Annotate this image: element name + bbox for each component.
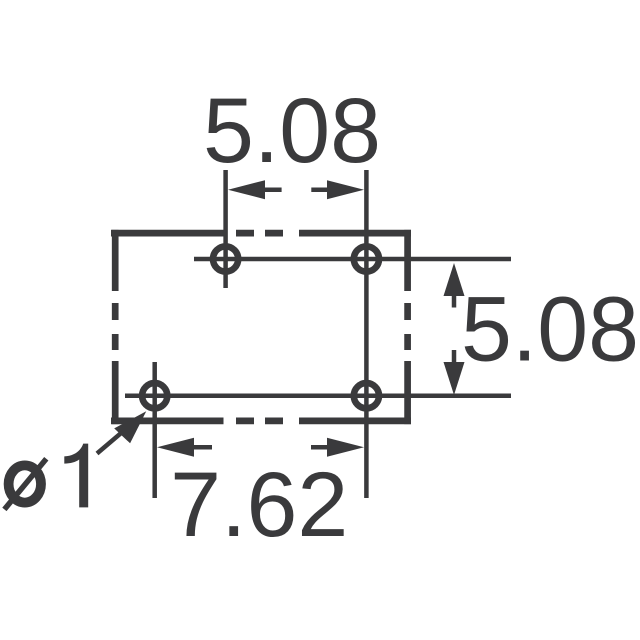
dimension 5.08 right: up arrow tail	[452, 294, 457, 308]
leader line for hole diameter ø1	[97, 426, 130, 454]
dimension 7.62 bottom: left arrowhead	[157, 438, 194, 457]
dimension 7.62 bottom: right arrow tail	[311, 445, 329, 450]
leader arrowhead for ø1	[114, 411, 146, 443]
component outline bottom edge (phantom line)	[111, 418, 411, 425]
dimension 5.08 top: left arrowhead	[228, 180, 265, 199]
extension line / centerline top-left hole (vertical)	[223, 170, 228, 288]
component outline right edge (phantom line)	[404, 230, 411, 424]
digit 1 of ø1 (custom glyph)	[64, 444, 88, 508]
extension line / centerline bottom-left hole (vertical)	[152, 362, 157, 498]
svg-text:5.08: 5.08	[461, 278, 639, 380]
dimension 5.08 top: right arrow tail	[311, 187, 329, 192]
slash of diameter symbol	[4, 459, 46, 510]
centerline through bottom holes (horizontal)	[125, 393, 511, 398]
dimension 5.08 right: up arrowhead	[444, 263, 465, 296]
hole top-left	[213, 246, 238, 271]
dimension 5.08 top: right arrowhead	[327, 180, 364, 199]
hole top-right	[354, 246, 379, 271]
dimension 5.08 right: down arrowhead	[444, 362, 465, 395]
diameter symbol ø of ø1 (custom glyph)	[9, 465, 41, 502]
extension line / centerline right holes (vertical)	[364, 170, 369, 498]
hole bottom-right	[354, 383, 379, 408]
centerline through top holes (horizontal)	[194, 257, 511, 262]
dimension 7.62 bottom: left arrow tail	[192, 445, 212, 450]
svg-text:5.08: 5.08	[203, 80, 381, 182]
hole bottom-left	[142, 383, 167, 408]
dimension 5.08 top: left arrow tail	[263, 187, 282, 192]
dimension 5.08 right: down arrow tail	[452, 350, 457, 364]
component outline left edge (phantom line)	[112, 230, 119, 424]
svg-text:7.62: 7.62	[170, 454, 348, 556]
component outline top edge (phantom line)	[111, 230, 411, 237]
dimension 7.62 bottom: right arrowhead	[327, 438, 364, 457]
